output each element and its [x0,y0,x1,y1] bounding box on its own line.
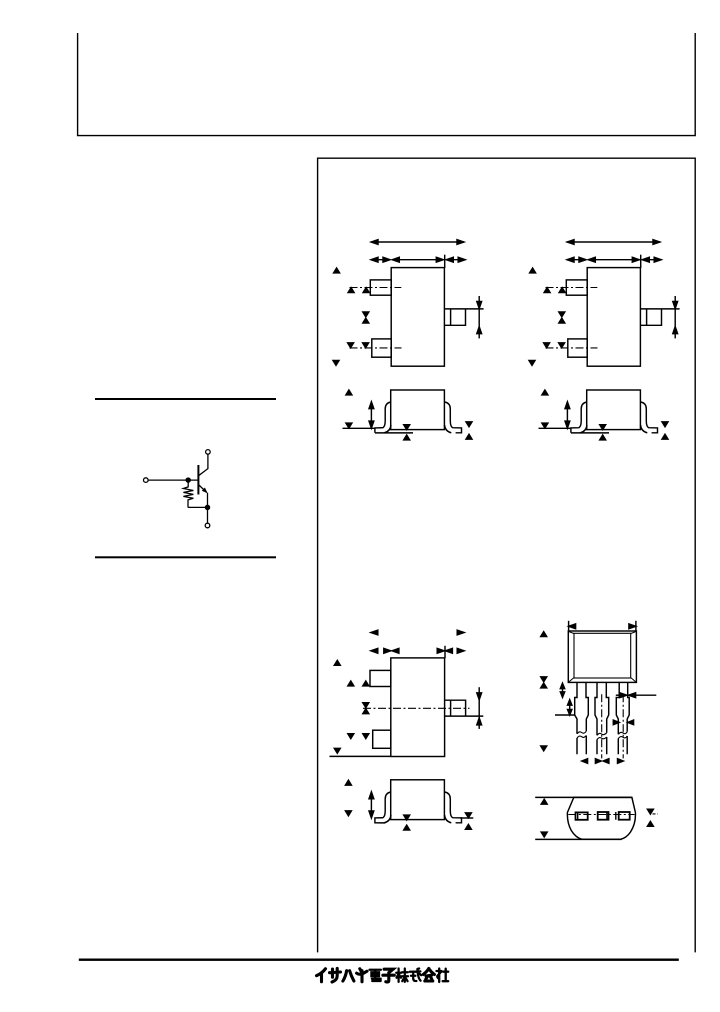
baseline left [343,427,375,429]
glyph i [317,969,326,982]
glyph sha [437,969,449,982]
lead 3 right with extended top edge [444,309,483,325]
collector wire [198,454,208,476]
collector terminal [206,450,211,455]
lead 2 break mark [597,733,607,740]
side view left lead [375,402,391,433]
lead 3 bend line [450,309,452,325]
lead 2 centerline [350,347,402,349]
package body top view [391,268,444,367]
dim lead width narrow [613,720,633,725]
dimension heads detail row [371,648,464,653]
chamfer corners [569,632,636,682]
lead 3 [616,682,629,754]
transistor Q1 base bar [197,465,199,495]
bottom view body outline [567,797,635,839]
marks foot thickness right [466,422,472,427]
side view body [391,780,445,820]
outline drawing box (open bottom) [318,158,696,952]
marks lead section height [647,809,653,814]
wire to output terminal [207,507,209,523]
lead 2 lower left [373,730,391,748]
right lead height dimension line [478,687,480,729]
right lead height dimension line [478,296,480,338]
lead section 3 [619,812,630,820]
lead 1 break mark [577,731,586,738]
dim shoulder length [568,700,572,715]
side view body [391,390,445,430]
rule above circuit [95,398,276,400]
lead 3 break mark [618,732,627,739]
dimension arrow body width [392,257,443,262]
dim lead exposed length [560,683,564,697]
mark body top [334,268,340,273]
dimension heads overall width row [371,630,464,635]
lead 3 right [445,700,484,716]
seating plane extension under body [375,432,413,434]
marks foot thickness center [404,815,410,820]
standoff dimension arrow [369,792,374,818]
package centerline horizontal [363,707,470,709]
mark height bottom [541,832,547,837]
lead section 1 [576,812,588,819]
emitter wire with arrow [198,485,206,493]
shoulder extension line [555,714,575,716]
lead 1 upper left [370,280,391,295]
bottom view centerline [568,814,634,816]
marks package center [363,703,369,708]
side view right lead [445,402,462,433]
lead 1 centerline [350,287,402,289]
glyph kai [423,969,434,982]
marks foot thickness right [465,813,471,818]
lead 2 [595,682,609,754]
digital transistor equivalent circuit [144,450,211,528]
footer rule [79,959,679,961]
lead section 2 [598,812,609,820]
resistor R1 zigzag [183,482,205,507]
package body top view [391,658,445,757]
extension line body right [444,646,446,658]
extension line body right [444,255,446,268]
mark body top [334,660,340,665]
mark body bottom [333,361,339,366]
body front view inner [574,633,631,678]
output terminal [205,523,210,528]
glyph ya [357,969,367,982]
bottom view bottom line [535,838,622,840]
glyph shi [383,969,394,982]
mark body bottom [334,748,340,753]
header box (open top) [78,33,696,136]
mark body top level [541,632,547,637]
glyph ha [343,971,354,981]
node base dot [186,478,190,482]
lead 3 centerline [622,694,624,758]
lead 1 [575,682,589,754]
marks lead1 centerline [348,288,354,293]
width dimension heads [569,624,636,629]
pitch marks bottom [582,759,624,764]
side view left lead [375,792,391,823]
marks lead2 centerline [348,343,354,348]
marks lead2 centerline [348,734,354,739]
standoff dimension arrow [369,402,374,428]
glyph den [370,970,381,981]
dimension arrow right lead length [446,257,465,262]
mark lead end level [541,746,547,751]
dimension arrow overall width [371,240,464,245]
mark baseline side [345,811,351,816]
bottom view top line [535,796,632,798]
glyph shiki [410,969,421,982]
marks foot thickness center [404,425,410,430]
lead 3 bend line [450,700,452,716]
dim lead thickness callout [616,693,657,698]
input terminal [144,478,149,483]
marks lead1 centerline [348,681,354,686]
section tick lines [578,812,616,820]
mark height top [541,799,547,804]
lead 2 centerline [601,694,603,758]
dimension arrow left lead length [371,257,390,262]
mark body top side [346,390,352,395]
body bottom edge extension [330,755,391,757]
right foot top extension [460,817,473,819]
footer company name イサハヤ電子株式会社 (approximated vector glyphs) [317,968,449,982]
node emitter junction [205,505,209,509]
wire base input [148,479,198,481]
glyph kabu [396,969,408,982]
mark body top side [345,780,351,785]
lead 2 lower left [372,339,391,357]
body front view outer [568,631,636,682]
mark baseline side [346,423,352,428]
dash right of marks [653,813,659,815]
glyph sa [330,968,341,982]
marks body bottom level [541,677,547,682]
lead 1 upper left [370,670,391,686]
emitter down wire [207,493,209,508]
width extension lines [568,621,570,631]
side view right lead [445,792,462,823]
marks package center [363,312,369,317]
rule below circuit [95,556,276,558]
